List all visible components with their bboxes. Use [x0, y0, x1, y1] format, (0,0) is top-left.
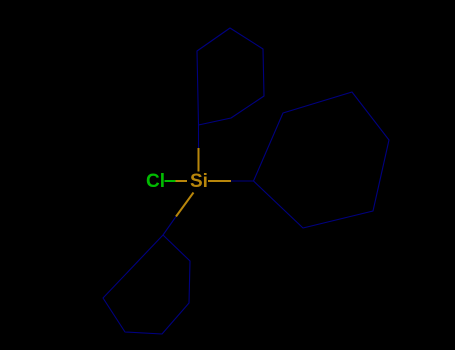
ring cyclohexyl 3 (bottom-left) — [103, 235, 190, 334]
ring cyclohexyl 1 (top) — [197, 28, 264, 125]
svg-text:Si: Si — [190, 171, 208, 192]
ring cyclohexyl 2 (right) — [254, 92, 390, 228]
bond C3-Si (carbon half, down-left) — [163, 217, 176, 236]
bond C2-Si (carbon half, right) — [231, 180, 254, 182]
svg-text:Cl: Cl — [146, 171, 165, 192]
bond Si-C1 (silicon half, up) — [198, 148, 200, 172]
bond C1-Si (carbon half, up) — [198, 125, 200, 148]
bond Si-C3 (silicon half, down-left) — [176, 193, 194, 217]
bond Si-C2 (silicon half, right) — [208, 180, 231, 182]
bond Si-Cl (silicon half) — [176, 180, 188, 182]
bond Cl-Si (chlorine half) — [165, 180, 176, 182]
